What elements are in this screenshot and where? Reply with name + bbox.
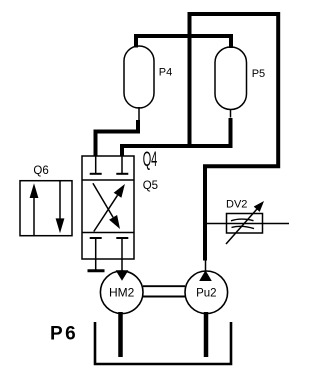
svg-text:HM2: HM2 [109, 286, 135, 300]
svg-text:Q4: Q4 [143, 147, 158, 171]
svg-text:Q6: Q6 [33, 165, 48, 177]
svg-text:P6: P6 [50, 324, 78, 345]
svg-text:DV2: DV2 [226, 199, 247, 211]
svg-text:Pu2: Pu2 [196, 288, 216, 300]
svg-text:P5: P5 [252, 68, 265, 80]
svg-text:Q5: Q5 [143, 180, 158, 192]
svg-text:P4: P4 [159, 67, 172, 79]
